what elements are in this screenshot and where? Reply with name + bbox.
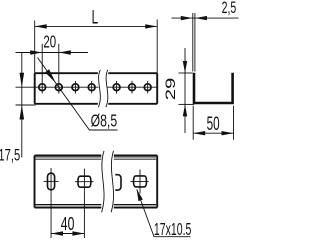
hole 5: [113, 84, 120, 91]
svg-text:40: 40: [61, 215, 75, 235]
dimension L line: [35, 25, 158, 27]
extension ticks 17,5: [16, 104, 36, 106]
leader line diameter 8,5: [38, 58, 118, 131]
partial slot at break: [115, 175, 121, 190]
hole 4: [88, 84, 95, 91]
dimension 2,5 line: [172, 17, 239, 19]
dimension 2,5 extension lines: [193, 13, 195, 72]
extension ticks 29: [179, 72, 193, 74]
rail front view outline: [35, 73, 158, 104]
svg-text:2,5: 2,5: [222, 0, 237, 17]
dimension 20 extension lines: [42, 44, 59, 94]
svg-text:17,5: 17,5: [0, 146, 20, 165]
hole centerline right segment: [107, 86, 157, 88]
dimension 20 line: [16, 52, 89, 54]
svg-text:Ø8,5: Ø8,5: [91, 112, 118, 132]
top view folded edge lines: [36, 156, 157, 158]
break lines top view: [102, 151, 104, 212]
hole 2: [55, 84, 62, 91]
slot 1 (vertical): [48, 173, 55, 190]
svg-text:50: 50: [207, 114, 220, 134]
slot 3 (horizontal): [134, 176, 147, 187]
dimension L extension lines: [35, 20, 158, 74]
svg-text:17x10.5: 17x10.5: [154, 221, 191, 240]
dimension 50 extension lines: [193, 106, 233, 140]
slot 2 (horizontal): [78, 176, 91, 187]
leader line slot size: [137, 190, 191, 237]
hole 7: [144, 84, 151, 91]
profile U-channel: [193, 73, 234, 105]
hole 6: [129, 84, 136, 91]
break lines front view: [98, 70, 100, 107]
hole 3: [72, 84, 79, 91]
rail top view outline: [35, 156, 158, 208]
dimension 29 line: [184, 48, 186, 133]
svg-text:20: 20: [43, 33, 56, 52]
svg-text:29: 29: [162, 78, 178, 101]
hole 1: [39, 84, 46, 91]
dimension 40 line: [51, 233, 84, 235]
dimension 50 line: [193, 132, 233, 134]
svg-text:L: L: [92, 7, 99, 29]
dimension 17,5 line: [21, 53, 23, 158]
hole centerline left segment: [16, 86, 99, 88]
